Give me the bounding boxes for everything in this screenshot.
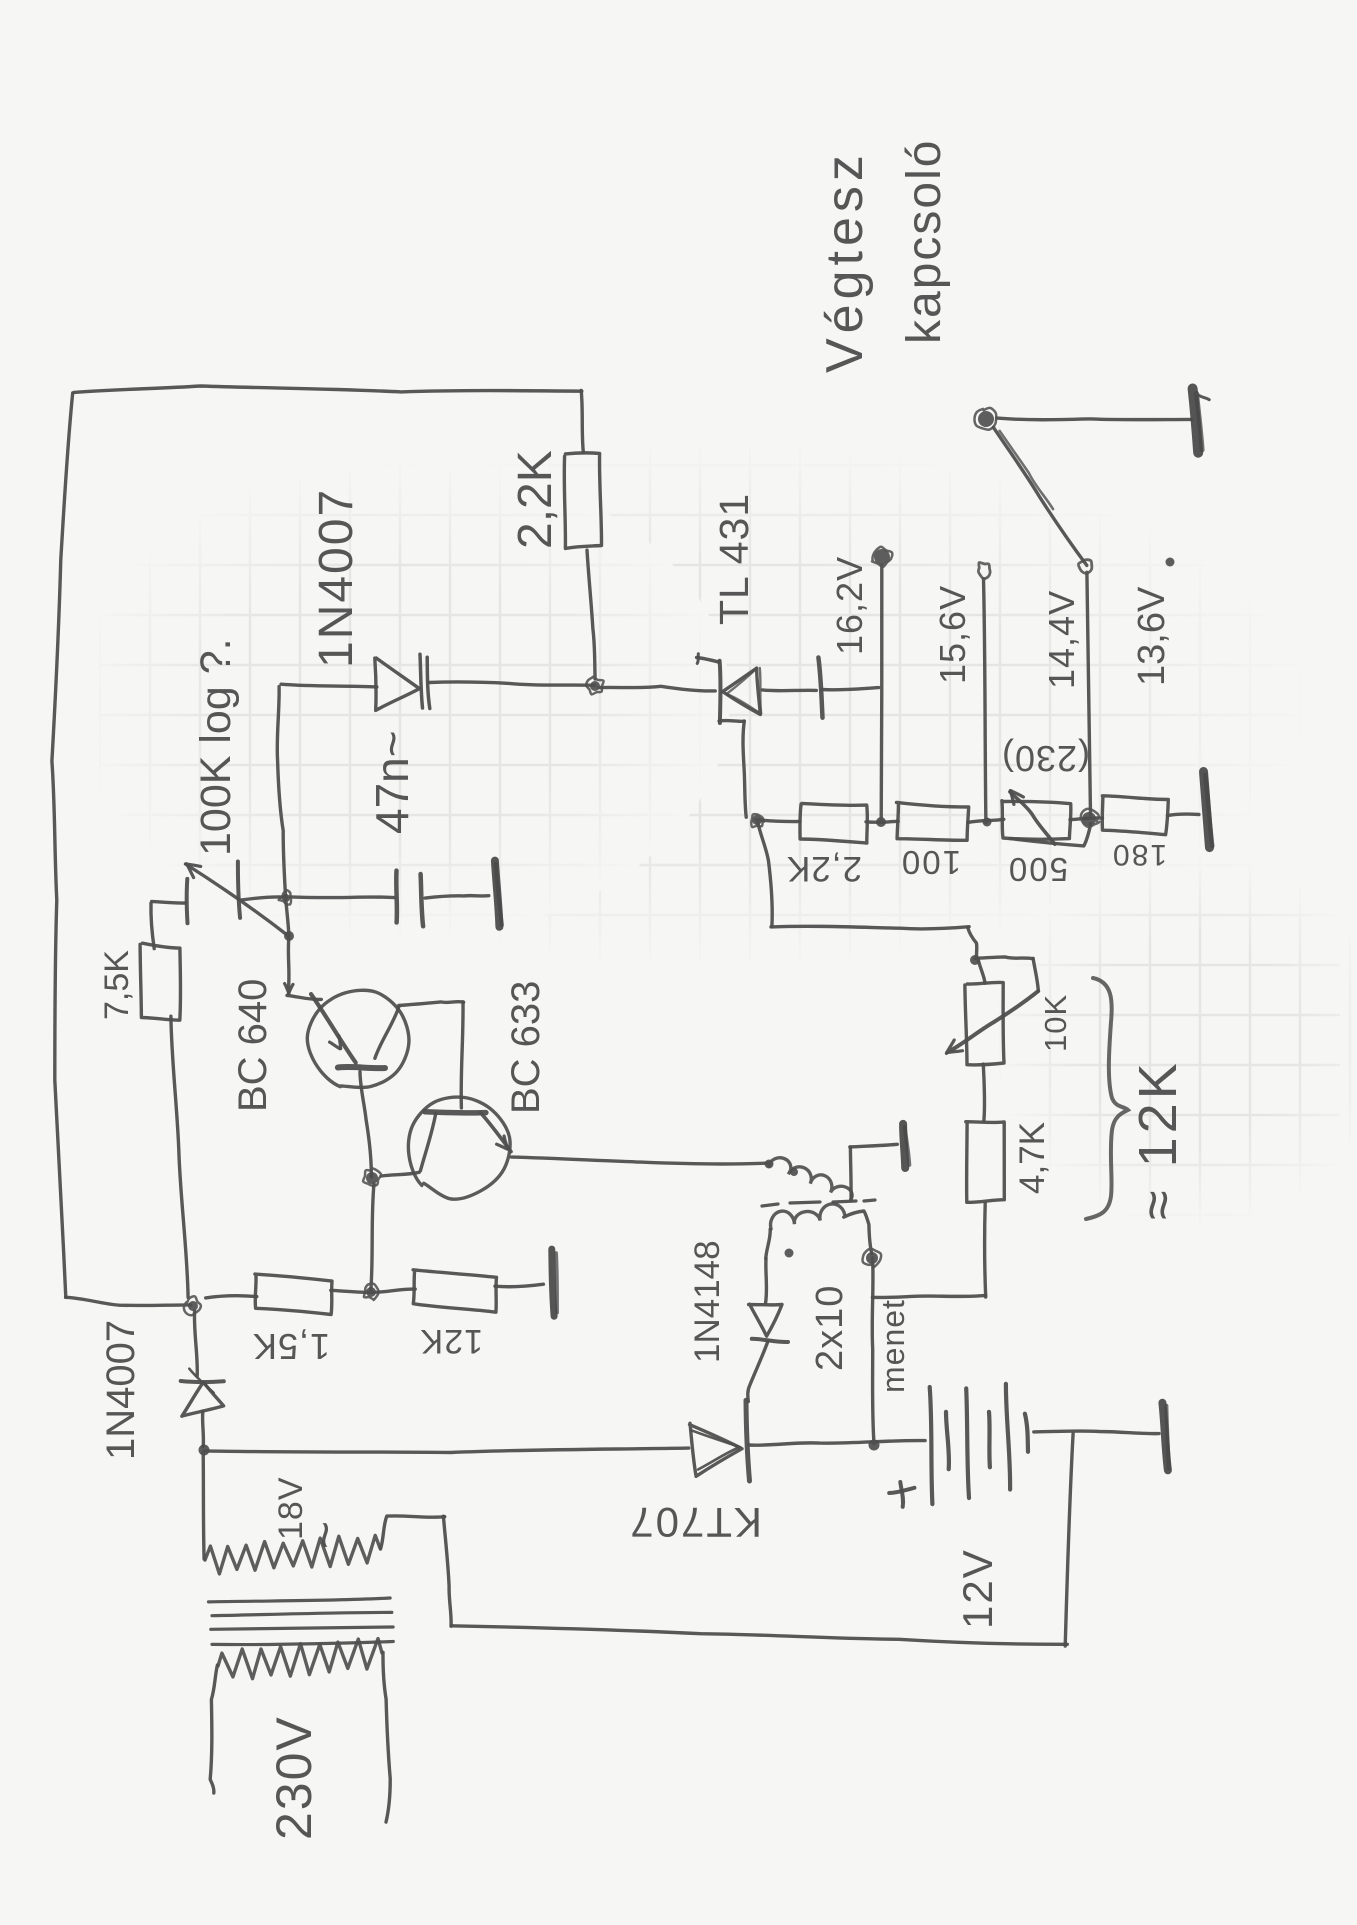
svg-text:14,4V: 14,4V: [1041, 590, 1082, 689]
svg-text:2x10: 2x10: [809, 1285, 851, 1371]
svg-text:menet: menet: [875, 1299, 911, 1393]
svg-text:100K log ?.: 100K log ?.: [192, 638, 240, 856]
svg-text:≈ 12K: ≈ 12K: [1128, 1059, 1188, 1220]
svg-text:16,2V: 16,2V: [829, 556, 870, 655]
svg-text:100: 100: [900, 844, 961, 881]
svg-text:15,6V: 15,6V: [932, 585, 973, 684]
svg-text:BC 640: BC 640: [231, 979, 275, 1112]
svg-text:~: ~: [299, 1521, 352, 1549]
svg-text:TL 431: TL 431: [711, 493, 757, 625]
svg-text:4,7K: 4,7K: [1013, 1122, 1052, 1194]
svg-text:12K: 12K: [420, 1322, 484, 1360]
svg-text:BC 633: BC 633: [504, 981, 548, 1114]
svg-text:13,6V: 13,6V: [1131, 586, 1173, 686]
svg-text:7,5K: 7,5K: [98, 950, 136, 1020]
svg-text:12V: 12V: [954, 1548, 1001, 1629]
svg-text:2,2K: 2,2K: [509, 450, 562, 549]
svg-text:1N4007: 1N4007: [99, 1320, 143, 1460]
svg-text:10K: 10K: [1038, 994, 1073, 1052]
svg-text:1,5K: 1,5K: [252, 1326, 330, 1367]
svg-text:(230): (230): [1001, 738, 1090, 779]
svg-text:KT707: KT707: [628, 1499, 762, 1546]
svg-text:Végtesz: Végtesz: [816, 150, 874, 373]
svg-text:230V: 230V: [266, 1715, 322, 1840]
svg-text:1N4148: 1N4148: [688, 1240, 727, 1363]
svg-text:kapcsoló: kapcsoló: [898, 139, 951, 344]
svg-text:1N4007: 1N4007: [310, 488, 363, 668]
svg-text:47n~: 47n~: [366, 730, 418, 834]
svg-text:2,2K: 2,2K: [786, 849, 862, 888]
svg-text:180: 180: [1111, 838, 1167, 871]
svg-text:500: 500: [1007, 851, 1068, 888]
